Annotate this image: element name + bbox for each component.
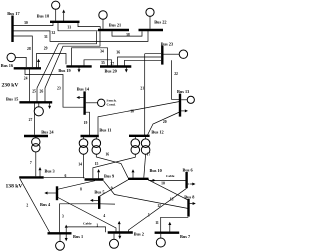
- svg-text:11: 11: [155, 221, 159, 225]
- svg-text:19: 19: [84, 121, 88, 125]
- svg-text:Bus 16: Bus 16: [1, 63, 14, 68]
- svg-text:6: 6: [65, 174, 67, 178]
- svg-text:14: 14: [78, 162, 82, 166]
- svg-text:30: 30: [24, 21, 28, 25]
- svg-text:138 kV: 138 kV: [6, 183, 23, 189]
- svg-text:35: 35: [101, 61, 105, 65]
- svg-text:8: 8: [80, 187, 82, 191]
- svg-text:Bus 11: Bus 11: [99, 127, 111, 132]
- svg-text:Bus 1: Bus 1: [73, 234, 83, 239]
- svg-text:34: 34: [100, 49, 104, 53]
- svg-text:26: 26: [40, 89, 44, 93]
- svg-text:17: 17: [147, 153, 151, 157]
- svg-text:25: 25: [32, 89, 36, 93]
- svg-text:Bus 24: Bus 24: [41, 129, 54, 134]
- svg-text:Cable: Cable: [166, 174, 175, 178]
- svg-text:3: 3: [62, 215, 64, 219]
- svg-text:Bus 5: Bus 5: [94, 189, 104, 194]
- svg-text:37: 37: [110, 62, 114, 66]
- svg-text:Cond.: Cond.: [107, 103, 116, 107]
- svg-text:7: 7: [30, 161, 32, 165]
- svg-text:5: 5: [148, 213, 150, 217]
- svg-text:Bus 10: Bus 10: [150, 168, 162, 173]
- svg-text:24: 24: [24, 76, 28, 80]
- svg-text:Bus 23: Bus 23: [161, 41, 173, 46]
- svg-text:Bus 14: Bus 14: [77, 87, 90, 92]
- svg-text:22: 22: [174, 72, 178, 76]
- svg-text:Bus 13: Bus 13: [177, 89, 189, 94]
- svg-text:Bus 9: Bus 9: [104, 173, 114, 178]
- svg-text:Bus 15: Bus 15: [6, 96, 18, 101]
- svg-text:Bus 20: Bus 20: [105, 68, 117, 73]
- svg-text:16: 16: [105, 153, 109, 157]
- svg-text:Bus 2: Bus 2: [134, 231, 144, 236]
- svg-text:20: 20: [163, 120, 167, 124]
- svg-text:27: 27: [29, 118, 33, 122]
- svg-text:Bus 18: Bus 18: [37, 13, 49, 18]
- svg-text:10: 10: [161, 182, 165, 186]
- svg-text:29: 29: [44, 46, 48, 50]
- svg-text:15: 15: [95, 162, 99, 166]
- svg-text:18: 18: [130, 110, 134, 114]
- svg-text:31: 31: [44, 35, 48, 39]
- svg-text:Bus 17: Bus 17: [7, 11, 20, 16]
- svg-text:9: 9: [111, 186, 113, 190]
- svg-text:2: 2: [26, 204, 28, 208]
- svg-text:Bus 4: Bus 4: [40, 202, 51, 207]
- svg-text:Bus 22: Bus 22: [154, 19, 166, 24]
- svg-text:23: 23: [57, 87, 61, 91]
- svg-text:38: 38: [126, 33, 130, 37]
- svg-text:Bus 12: Bus 12: [151, 130, 163, 135]
- svg-text:Cable: Cable: [83, 221, 92, 225]
- svg-text:28: 28: [27, 47, 31, 51]
- svg-text:21: 21: [140, 86, 144, 90]
- svg-text:13: 13: [170, 197, 174, 201]
- svg-text:Bus 8: Bus 8: [184, 195, 194, 200]
- svg-text:Bus 21: Bus 21: [109, 23, 121, 28]
- svg-text:1: 1: [96, 224, 98, 228]
- svg-text:Bus 6: Bus 6: [183, 168, 194, 173]
- svg-text:Bus 19: Bus 19: [58, 68, 70, 73]
- svg-text:33: 33: [68, 25, 72, 29]
- svg-text:Bus 3: Bus 3: [45, 168, 55, 173]
- svg-text:36: 36: [116, 51, 120, 55]
- svg-text:4: 4: [103, 214, 105, 218]
- svg-text:32: 32: [52, 31, 56, 35]
- svg-text:Bus 7: Bus 7: [180, 234, 191, 239]
- svg-text:12: 12: [157, 204, 161, 208]
- svg-text:230 kV: 230 kV: [2, 83, 19, 89]
